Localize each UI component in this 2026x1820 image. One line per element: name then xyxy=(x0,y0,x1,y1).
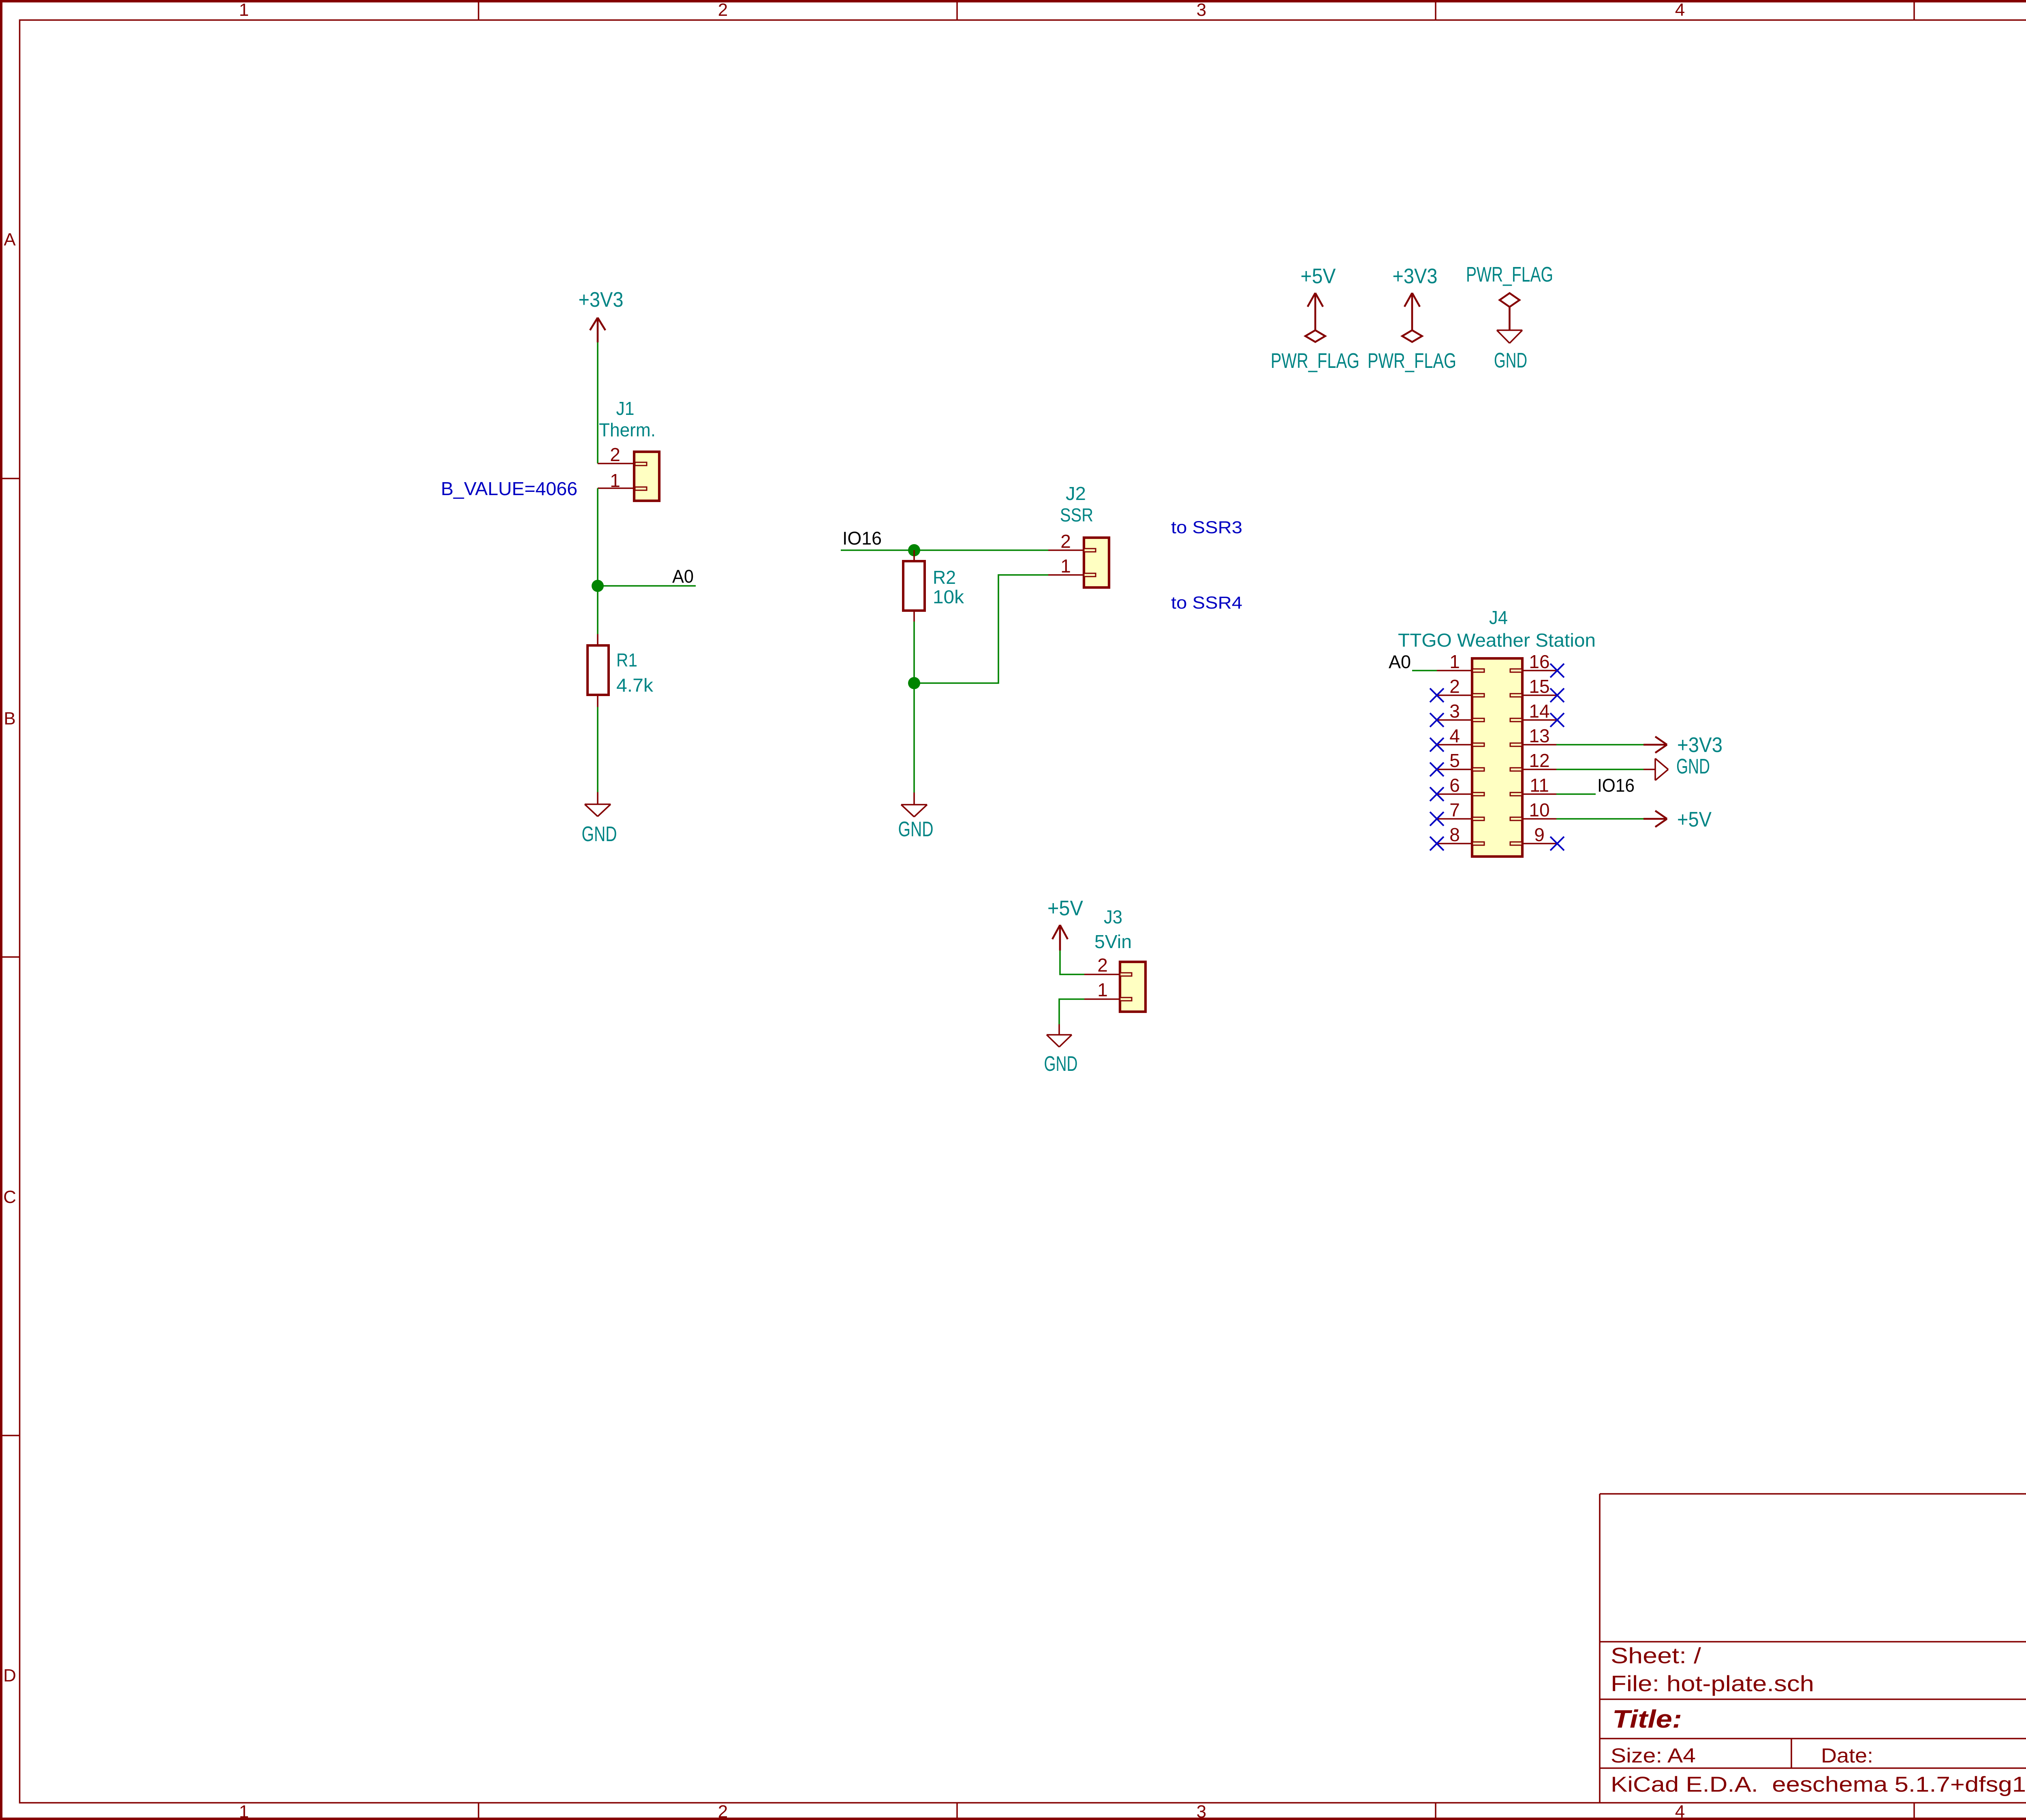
svg-text:PWR_FLAG: PWR_FLAG xyxy=(1368,349,1456,373)
ground symbol below J3 xyxy=(1047,1024,1072,1047)
svg-text:GND: GND xyxy=(1494,349,1527,372)
connector J1 Therm. xyxy=(598,398,659,501)
svg-text:IO16: IO16 xyxy=(1597,775,1635,796)
wire junction to R1 xyxy=(597,586,598,634)
wire junction down to GND xyxy=(913,683,915,793)
junction below R2 xyxy=(908,677,920,689)
svg-text:J3: J3 xyxy=(1104,906,1122,927)
power symbol +5V (right, rotated) xyxy=(1643,808,1712,831)
svg-text:GND: GND xyxy=(1044,1052,1078,1076)
no-connect X on J4 pin 16 xyxy=(1550,664,1564,677)
svg-text:D: D xyxy=(3,1666,16,1685)
svg-text:4.7k: 4.7k xyxy=(616,675,654,696)
connector J2 SSR xyxy=(1048,483,1109,587)
svg-text:15: 15 xyxy=(1529,676,1549,697)
no-connect X on J4 pin 5 xyxy=(1430,763,1444,776)
svg-text:12: 12 xyxy=(1529,750,1549,771)
svg-text:File: hot-plate.sch: File: hot-plate.sch xyxy=(1611,1671,1814,1696)
wire J4 pin13 to +3V3 xyxy=(1556,744,1643,746)
no-connect X on J4 pin 6 xyxy=(1430,787,1444,801)
svg-text:5Vin: 5Vin xyxy=(1094,931,1132,952)
svg-text:R1: R1 xyxy=(616,649,637,671)
svg-text:+3V3: +3V3 xyxy=(579,288,624,312)
title block xyxy=(1600,1494,2026,1803)
svg-text:2: 2 xyxy=(718,1802,728,1820)
svg-text:KiCad E.D.A. eeschema 5.1.7+d: KiCad E.D.A. eeschema 5.1.7+dfsg1-1 xyxy=(1611,1773,2026,1797)
power symbol +3V3 (right, rotated) xyxy=(1643,733,1723,757)
svg-text:10k: 10k xyxy=(933,586,964,607)
svg-text:+5V: +5V xyxy=(1677,808,1712,831)
svg-text:J2: J2 xyxy=(1066,483,1086,504)
svg-text:Date:: Date: xyxy=(1821,1744,1873,1767)
ground symbol below R2 xyxy=(901,793,927,817)
wire J4 pin12 to GND xyxy=(1556,769,1643,770)
svg-text:9: 9 xyxy=(1534,824,1545,845)
wire +3V3 to J1 pin 2 xyxy=(597,342,598,464)
wire J1 pin1 down to junction xyxy=(597,488,598,586)
svg-text:B_VALUE=4066: B_VALUE=4066 xyxy=(441,478,577,499)
svg-text:5: 5 xyxy=(1449,750,1460,771)
no-connect X on J4 pin 9 xyxy=(1550,837,1564,850)
svg-text:A: A xyxy=(4,230,16,250)
svg-text:GND: GND xyxy=(582,822,617,846)
resistor R2 10k xyxy=(903,550,964,622)
wire J4 pin10 to +5V xyxy=(1556,818,1643,820)
power symbol +3V3 with PWR_FLAG (top) xyxy=(1368,265,1456,373)
svg-text:1: 1 xyxy=(239,1802,249,1820)
svg-text:1: 1 xyxy=(1449,651,1460,672)
no-connect X on J4 pin 2 xyxy=(1430,688,1444,702)
no-connect X on J4 pin 15 xyxy=(1550,688,1564,702)
svg-text:13: 13 xyxy=(1529,725,1549,746)
svg-text:PWR_FLAG: PWR_FLAG xyxy=(1466,263,1553,286)
no-connect X on J4 pin 7 xyxy=(1430,812,1444,826)
no-connect X on J4 pin 14 xyxy=(1550,713,1564,727)
junction at R2 top xyxy=(908,544,920,556)
wire R2 to lower junction xyxy=(913,622,915,683)
wire junction to A0 label xyxy=(598,585,696,587)
svg-text:SSR: SSR xyxy=(1060,504,1093,525)
svg-text:to SSR3: to SSR3 xyxy=(1171,518,1242,537)
svg-text:+3V3: +3V3 xyxy=(1677,733,1723,757)
svg-text:R2: R2 xyxy=(933,567,956,588)
no-connect X on J4 pin 4 xyxy=(1430,738,1444,752)
svg-text:+3V3: +3V3 xyxy=(1393,265,1438,288)
connector J3 5Vin xyxy=(1084,906,1146,1012)
svg-text:J1: J1 xyxy=(616,398,635,419)
svg-text:2: 2 xyxy=(718,0,728,20)
svg-text:GND: GND xyxy=(1676,755,1710,778)
wire R1 to GND xyxy=(597,707,598,792)
svg-text:2: 2 xyxy=(1060,531,1071,552)
svg-text:J4: J4 xyxy=(1489,607,1508,628)
svg-text:14: 14 xyxy=(1529,701,1549,722)
svg-text:16: 16 xyxy=(1529,651,1549,672)
svg-text:1: 1 xyxy=(1097,979,1108,1000)
ground symbol below R1 xyxy=(585,792,611,816)
svg-text:TTGO Weather Station: TTGO Weather Station xyxy=(1398,630,1596,651)
wire J3 pin1 to GND xyxy=(1059,999,1084,1024)
svg-text:Therm.: Therm. xyxy=(599,419,656,440)
no-connect X on J4 pin 3 xyxy=(1430,713,1444,727)
svg-text:7: 7 xyxy=(1449,799,1460,820)
resistor R1 4.7k xyxy=(588,634,654,707)
svg-text:3: 3 xyxy=(1197,0,1206,20)
svg-text:3: 3 xyxy=(1449,701,1460,722)
svg-text:C: C xyxy=(3,1187,16,1207)
svg-text:A0: A0 xyxy=(1389,652,1411,672)
svg-text:+5V: +5V xyxy=(1047,897,1083,920)
svg-text:to SSR4: to SSR4 xyxy=(1171,593,1242,613)
connector J4 TTGO Weather Station xyxy=(1398,607,1596,857)
svg-text:Title:: Title: xyxy=(1612,1705,1682,1733)
svg-text:A0: A0 xyxy=(672,566,694,587)
svg-text:4: 4 xyxy=(1675,1802,1685,1820)
wire J4 pin11 to IO16 label xyxy=(1556,793,1596,795)
power symbol +3V3 (top left, PWR01) xyxy=(579,288,624,342)
svg-text:4: 4 xyxy=(1675,0,1685,20)
svg-text:2: 2 xyxy=(1097,955,1108,976)
wire junction right and up to J2 pin 1 xyxy=(914,575,1048,683)
svg-text:11: 11 xyxy=(1530,775,1549,796)
svg-text:2: 2 xyxy=(1449,676,1460,697)
svg-text:2: 2 xyxy=(610,444,620,465)
svg-text:PWR_FLAG: PWR_FLAG xyxy=(1271,349,1359,373)
J4 pins xyxy=(1430,651,1564,850)
PWR_FLAG on GND (top) xyxy=(1466,263,1553,372)
svg-text:6: 6 xyxy=(1449,775,1460,796)
svg-text:IO16: IO16 xyxy=(842,528,882,549)
wire A0 to J4 pin 1 xyxy=(1412,670,1437,671)
junction at A0 node xyxy=(592,580,604,592)
svg-text:3: 3 xyxy=(1197,1802,1206,1820)
svg-text:10: 10 xyxy=(1529,799,1549,820)
ground symbol (right, rotated) xyxy=(1643,755,1710,780)
svg-text:8: 8 xyxy=(1449,824,1460,845)
svg-text:+5V: +5V xyxy=(1301,265,1336,288)
svg-text:GND: GND xyxy=(898,818,934,841)
wire IO16 to J2 pin 2 xyxy=(841,549,1048,551)
power symbol +5V (J3) xyxy=(1047,897,1083,951)
svg-text:4: 4 xyxy=(1449,725,1460,746)
svg-text:1: 1 xyxy=(239,0,249,20)
svg-text:Sheet: /: Sheet: / xyxy=(1611,1643,1701,1668)
svg-text:Size: A4: Size: A4 xyxy=(1611,1744,1696,1767)
svg-text:1: 1 xyxy=(1060,555,1071,577)
wire +5V to J3 pin 2 xyxy=(1060,951,1084,974)
svg-text:B: B xyxy=(4,709,15,728)
no-connect X on J4 pin 8 xyxy=(1430,837,1444,850)
power symbol +5V with PWR_FLAG (top) xyxy=(1271,265,1359,373)
